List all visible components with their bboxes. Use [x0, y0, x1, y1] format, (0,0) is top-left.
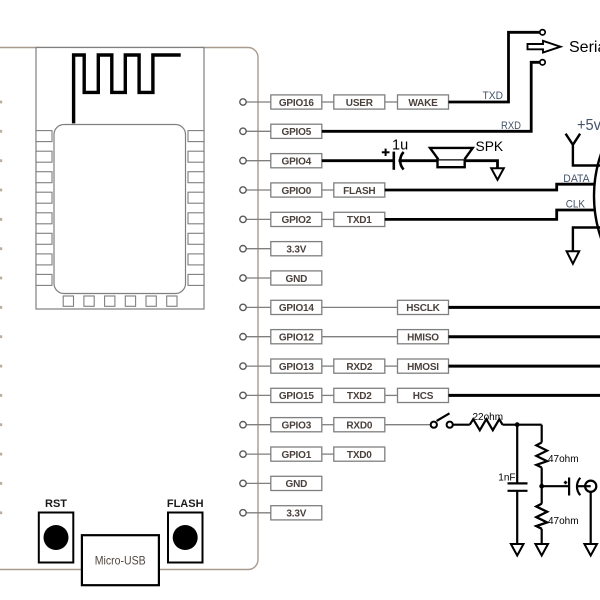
svg-text:GPIO1: GPIO1 — [282, 450, 312, 461]
svg-text:GPIO12: GPIO12 — [279, 333, 315, 344]
svg-text:HMISO: HMISO — [407, 333, 439, 344]
svg-text:GPIO3: GPIO3 — [282, 421, 312, 432]
svg-text:HMOSI: HMOSI — [407, 362, 439, 373]
svg-text:22ohm: 22ohm — [473, 412, 504, 423]
svg-text:GPIO0: GPIO0 — [282, 186, 312, 197]
svg-text:TXD1: TXD1 — [347, 215, 372, 226]
svg-text:USER: USER — [346, 98, 374, 109]
svg-text:GPIO2: GPIO2 — [282, 215, 312, 226]
svg-text:TXD0: TXD0 — [347, 450, 372, 461]
svg-text:RXD0: RXD0 — [346, 421, 373, 432]
svg-text:SPK: SPK — [476, 139, 504, 154]
svg-text:GPIO15: GPIO15 — [279, 391, 315, 402]
svg-text:GPIO5: GPIO5 — [282, 127, 312, 138]
svg-text:GPIO13: GPIO13 — [279, 362, 315, 373]
svg-text:GPIO14: GPIO14 — [279, 303, 315, 314]
svg-text:3.3V: 3.3V — [286, 245, 306, 256]
svg-text:1nF: 1nF — [498, 473, 515, 484]
svg-text:GPIO16: GPIO16 — [279, 98, 315, 109]
svg-text:FLASH: FLASH — [343, 186, 375, 197]
svg-text:HSCLK: HSCLK — [406, 303, 440, 314]
svg-text:GND: GND — [285, 274, 307, 285]
svg-text:DATA: DATA — [563, 173, 590, 185]
svg-text:+5v: +5v — [577, 117, 600, 134]
svg-text:FLASH: FLASH — [167, 498, 204, 510]
svg-text:3.3V: 3.3V — [286, 509, 306, 520]
svg-text:TXD: TXD — [483, 90, 504, 102]
svg-text:Serial: Serial — [569, 39, 600, 56]
svg-text:RXD2: RXD2 — [346, 362, 373, 373]
svg-text:Micro-USB: Micro-USB — [95, 554, 146, 568]
svg-text:GPIO4: GPIO4 — [282, 157, 312, 168]
svg-text:RXD: RXD — [501, 120, 521, 132]
svg-text:HCS: HCS — [413, 391, 434, 402]
svg-text:47ohm: 47ohm — [548, 516, 579, 527]
svg-text:GND: GND — [285, 479, 307, 490]
svg-text:TXD2: TXD2 — [347, 391, 372, 402]
svg-text:47ohm: 47ohm — [548, 454, 579, 465]
svg-text:CLK: CLK — [566, 199, 586, 211]
svg-text:WAKE: WAKE — [408, 98, 438, 109]
svg-text:RST: RST — [45, 498, 67, 510]
svg-text:1u: 1u — [392, 138, 408, 154]
